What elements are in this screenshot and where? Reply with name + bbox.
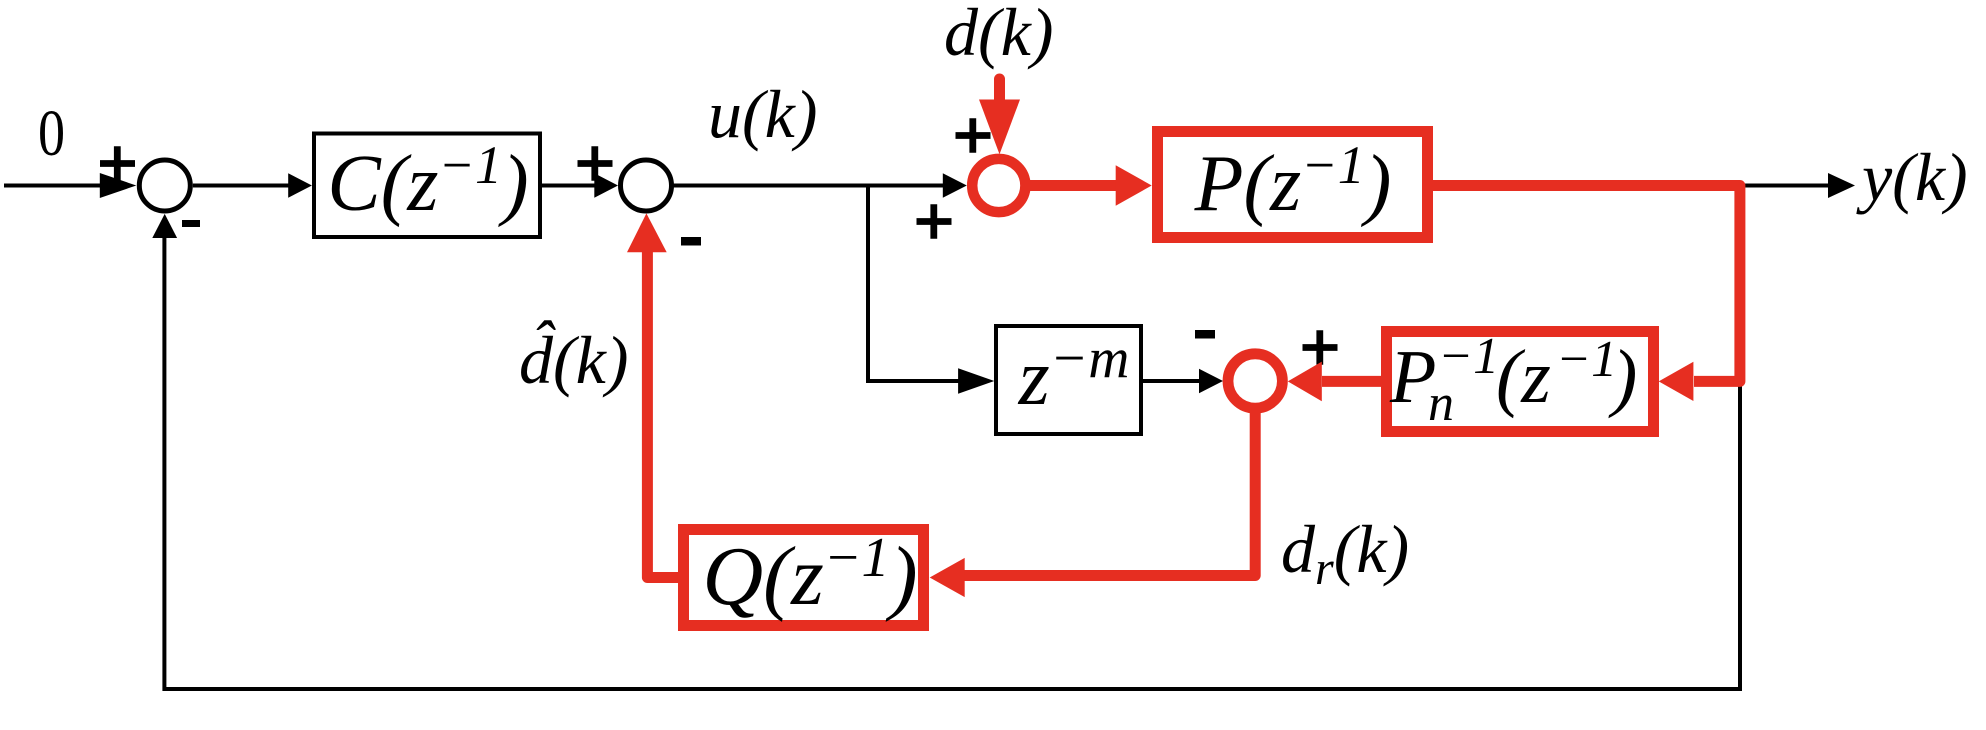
plus sign below-left of S3 (917, 204, 952, 239)
block P(z^-1) (red) (1158, 132, 1428, 238)
plus sign at summing junction S2 (578, 146, 613, 181)
wire branch from u(k) down to delay block (868, 186, 974, 382)
minus sign right of S2 (681, 237, 701, 246)
block C(z^-1) (314, 134, 540, 238)
svg-text:d(k): d(k) (944, 0, 1053, 70)
wire z^-m to summing junction S4 (1141, 379, 1201, 383)
red wire Q output up into S2, node dhat(k) (647, 252, 683, 578)
svg-text:y(k): y(k) (1856, 139, 1968, 215)
summing junction S4 (red) (1228, 354, 1282, 408)
svg-text:u(k): u(k) (708, 76, 817, 152)
plus sign above-right of S4 (1303, 330, 1338, 365)
block Pn^-1(z^-1) (red) (1387, 332, 1654, 432)
red wire Pn inverse to S4 (1322, 376, 1382, 387)
block Q(z^-1) (red) (684, 530, 924, 626)
red wire S3 to P block (1029, 180, 1117, 191)
summing junction S3 (red) (972, 159, 1025, 212)
black feedback wire y(k) to S1 (164, 186, 1740, 689)
wire S2 to summing junction S3, node u(k) (672, 184, 945, 188)
wire C block to summing junction S2 (540, 184, 596, 188)
red arrow d(k) into S3 (994, 79, 1005, 101)
svg-text:dr(k): dr(k) (1281, 511, 1409, 595)
red wire P output down to Pn inverse block (1433, 186, 1740, 382)
block z^-m (996, 326, 1141, 434)
wire P output to y(k) (1745, 184, 1830, 188)
red wire S4 down to Q block, node dr(k) (963, 410, 1255, 576)
plus sign above-left of S3 (956, 118, 991, 153)
svg-text:ˆ: ˆ (531, 308, 556, 381)
minus sign below S1 (182, 220, 200, 227)
wire S1 to C block (193, 184, 290, 188)
plus sign at summing junction S1 (100, 146, 135, 181)
svg-text:0: 0 (38, 97, 65, 170)
wire input r=0 (4, 184, 102, 188)
summing junction S1 (139, 160, 190, 211)
summing junction S2 (621, 160, 672, 211)
minus sign above-left of S4 (1195, 330, 1215, 339)
